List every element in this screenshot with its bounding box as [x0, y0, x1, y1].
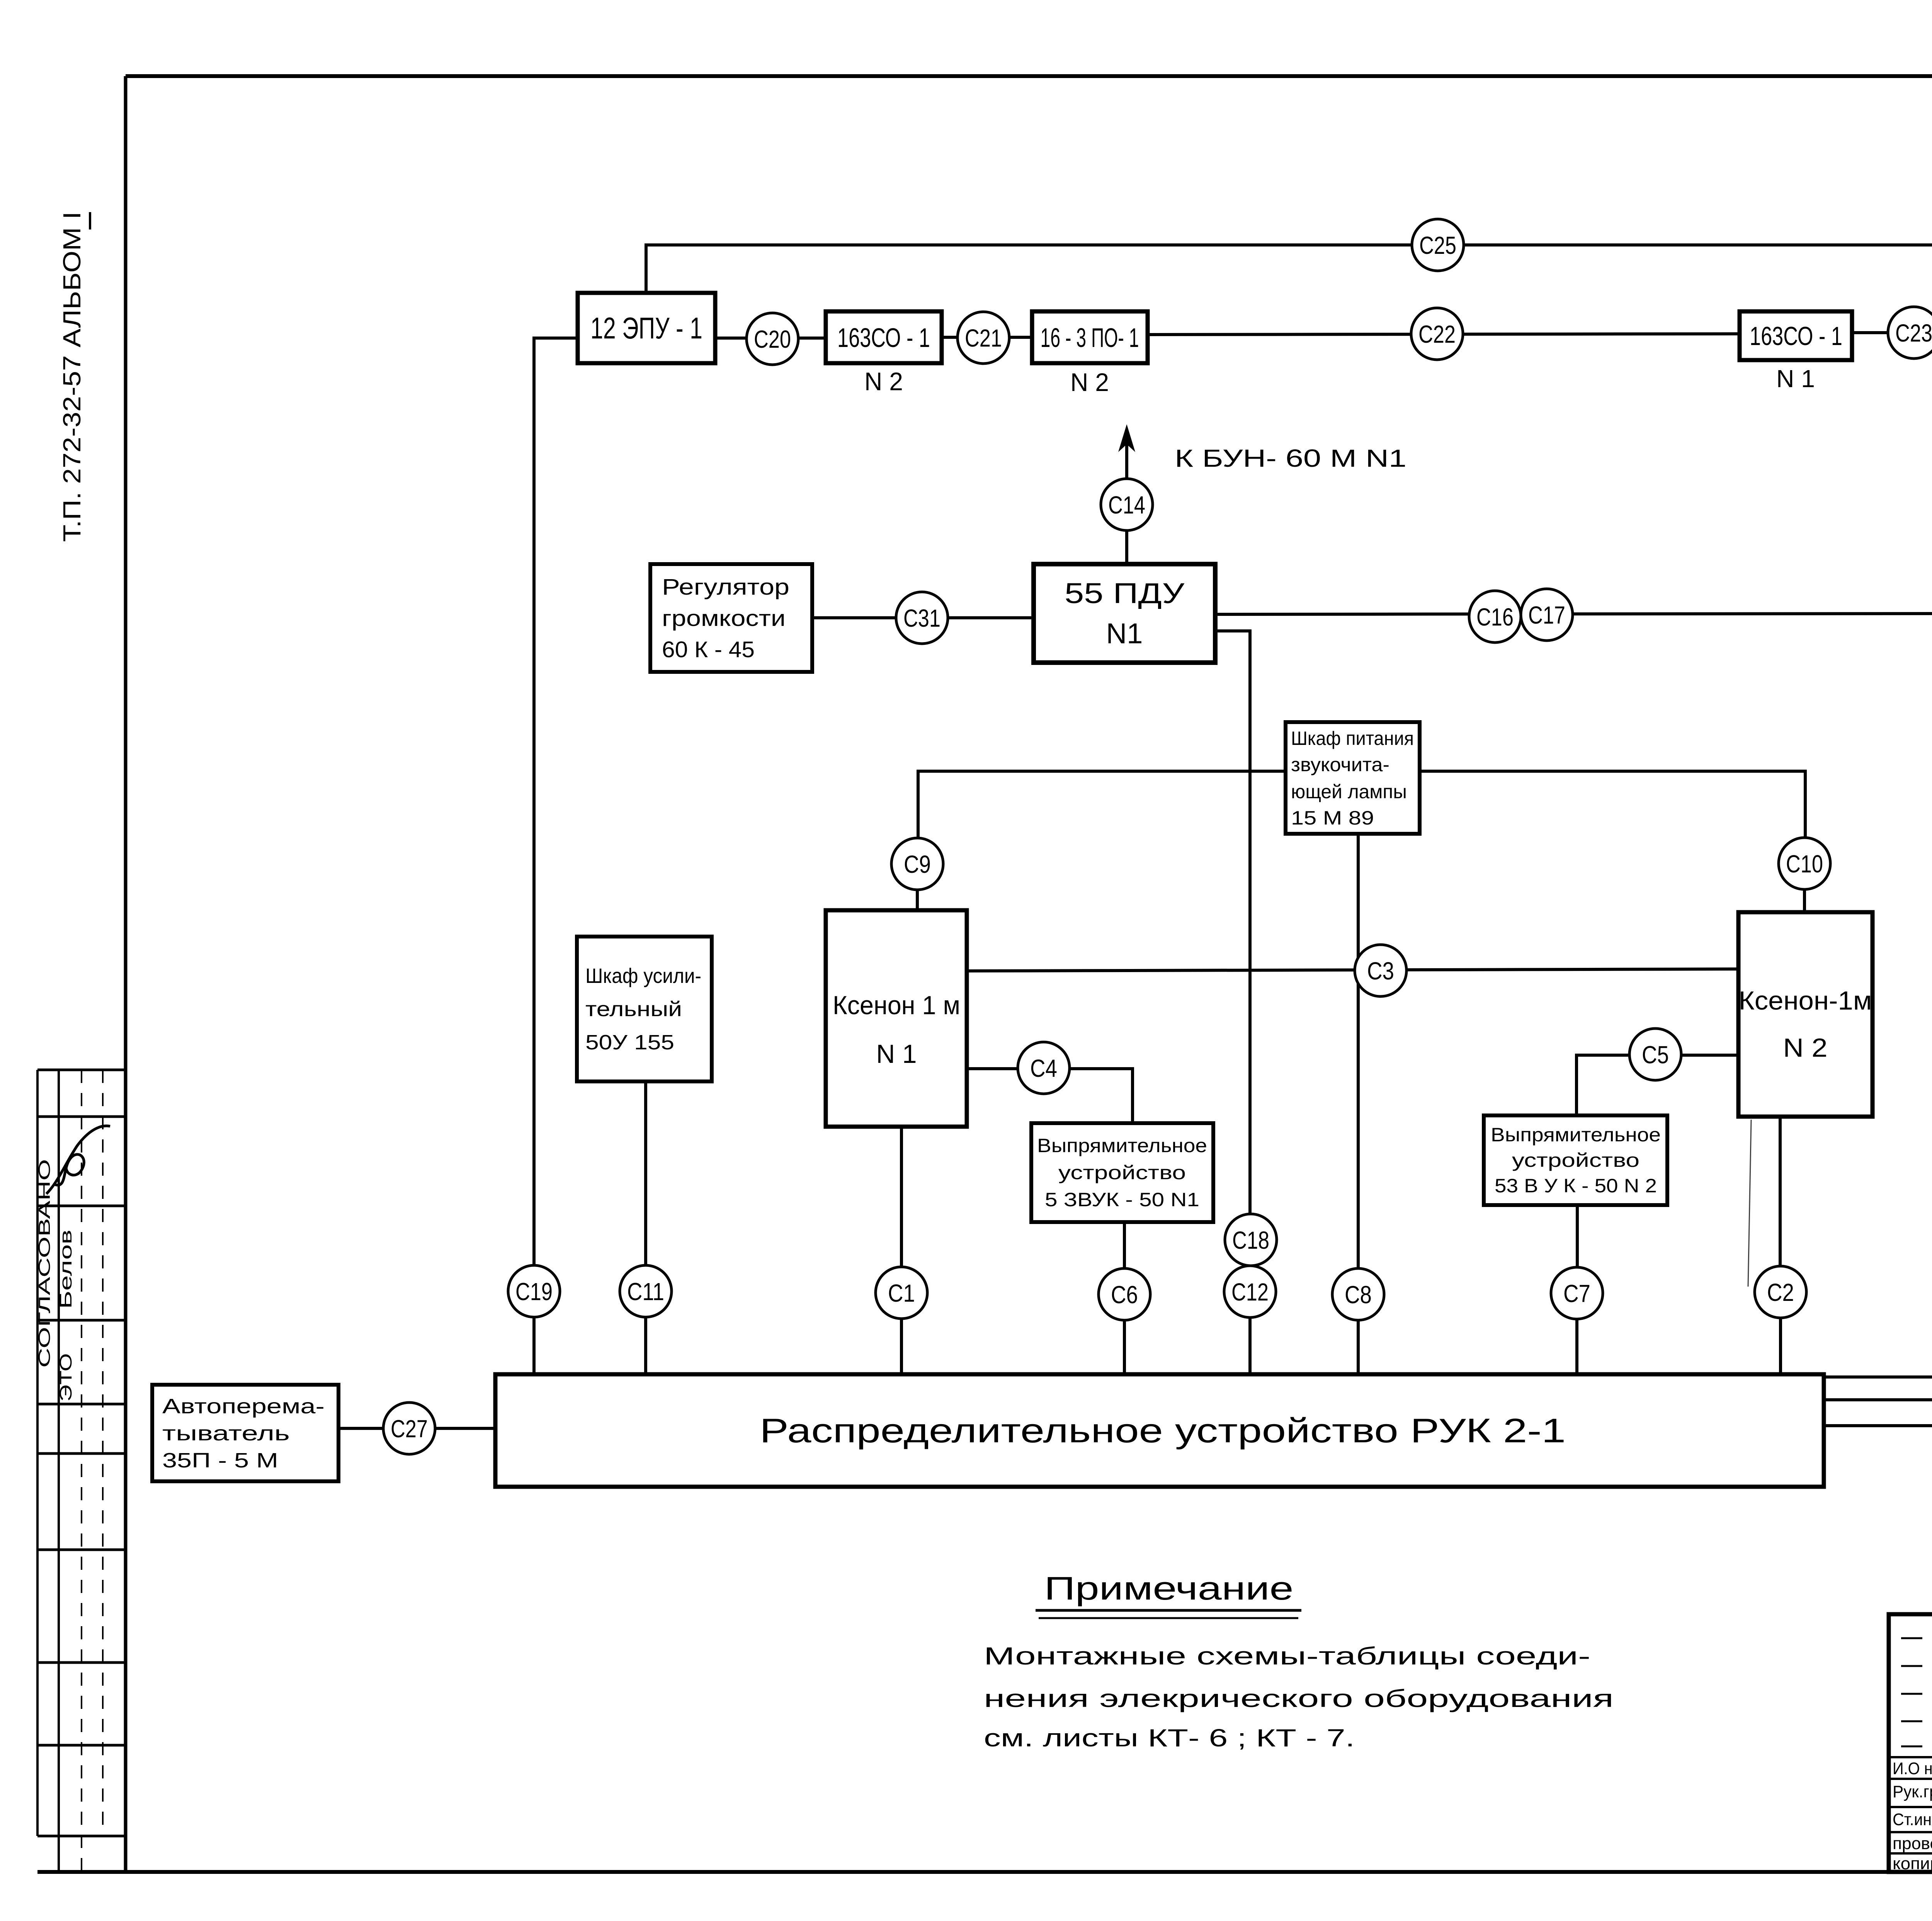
svg-text:С14: С14: [1108, 491, 1145, 519]
connector C9: [891, 838, 943, 890]
connector C20: [747, 313, 798, 365]
svg-text:звукочита-: звукочита-: [1291, 754, 1389, 775]
note heading underline 1: [1036, 1609, 1301, 1612]
svg-text:С1: С1: [888, 1279, 915, 1307]
svg-text:С7: С7: [1563, 1280, 1590, 1307]
connector C12: [1224, 1266, 1276, 1317]
wire 55PDU N1 to C18 C12 column: [1215, 631, 1250, 1214]
svg-text:Регулятор: Регулятор: [662, 575, 789, 600]
wire 12EPU-1 to C19 column: [534, 338, 578, 1266]
wire 12EPU-1 to 163SO-1 N2: [715, 337, 826, 340]
wire C25 loop over top row: [646, 245, 1932, 311]
wire 55PDU N1 to 55PDU N2: [1215, 614, 1932, 614]
approval strip column 1: [36, 1070, 39, 1836]
svg-text:С8: С8: [1345, 1281, 1372, 1309]
wire C1 to RUK: [900, 1319, 903, 1374]
device sound lamp power cabinet 15M89: [1286, 722, 1420, 834]
wire 163SO-1 N2 to 16-3PO-1 N2: [942, 336, 1032, 339]
wire 55PDU N1 to C14 arrow: [1125, 530, 1128, 564]
connector C18: [1225, 1214, 1277, 1266]
device rectifier 53 VUK-50 N2: [1484, 1115, 1667, 1205]
wire C13 to RUK distribution box: [1824, 1318, 1932, 1400]
wire C19 stub to RUK: [532, 1317, 536, 1374]
connector C2: [1755, 1266, 1806, 1318]
title block frame: [1889, 1614, 1932, 1872]
approval strip row line 5: [37, 1403, 126, 1406]
approval strip row line 9: [37, 1744, 126, 1747]
svg-text:С11: С11: [627, 1278, 664, 1306]
svg-text:53 В У К - 50 N 2: 53 В У К - 50 N 2: [1495, 1175, 1657, 1197]
svg-text:Распределительное устройство: Распределительное устройство РУК 2-1: [760, 1411, 1566, 1450]
device Xenon 1m N1: [826, 910, 967, 1127]
sheet border bottom: [37, 1870, 1932, 1874]
svg-text:5 ЗВУК - 50 N1: 5 ЗВУК - 50 N1: [1045, 1189, 1199, 1210]
connector C19: [508, 1265, 560, 1317]
svg-text:громкости: громкости: [662, 606, 786, 631]
svg-text:Монтажные схемы-таблицы соед: Монтажные схемы-таблицы соеди-: [984, 1642, 1590, 1670]
svg-text:см. листы КТ- 6 ; КТ - 7.: см. листы КТ- 6 ; КТ - 7.: [984, 1724, 1355, 1752]
connector C3: [1355, 945, 1406, 996]
wire Xenon N1 to C1: [900, 1127, 903, 1267]
wire power cabinet to C10: [1420, 771, 1805, 838]
svg-text:163СО - 1: 163СО - 1: [1750, 321, 1842, 351]
approval strip row line 1: [37, 1069, 126, 1071]
svg-text:N 2: N 2: [1783, 1033, 1828, 1062]
connector C4: [1018, 1042, 1070, 1094]
svg-text:С20: С20: [754, 325, 791, 353]
svg-text:35П - 5 М: 35П - 5 М: [162, 1449, 278, 1472]
approval strip row line 8: [37, 1661, 126, 1664]
connector C1: [876, 1267, 927, 1319]
approval strip signature squiggle: [46, 1126, 110, 1194]
connector C14: [1101, 479, 1153, 530]
wire C14 up to BUN-60m N1: [1125, 430, 1128, 479]
wire Xenon N2 to rectifier N2: [1577, 1055, 1738, 1115]
wire C28 to RUK distribution box: [1824, 1318, 1932, 1426]
sheet border left: [124, 76, 128, 1872]
svg-text:Ксенон 1 м: Ксенон 1 м: [833, 991, 960, 1020]
svg-text:Белов: Белов: [56, 1230, 75, 1309]
svg-text:Автоперема-: Автоперема-: [162, 1395, 325, 1418]
approval strip column 3 dashed: [81, 1070, 82, 1872]
wire C2 to RUK: [1779, 1318, 1782, 1374]
svg-text:ЭТО: ЭТО: [56, 1353, 75, 1402]
approval strip row line 3: [37, 1205, 126, 1207]
svg-text:копиров.: копиров.: [1893, 1854, 1932, 1873]
svg-text:Ксенон-1м: Ксенон-1м: [1739, 986, 1872, 1015]
wire C11 to RUK: [644, 1317, 647, 1374]
device rectifier 5 ZVUK-50 N1: [1031, 1123, 1213, 1222]
note heading underline 2: [1039, 1617, 1298, 1619]
svg-text:N 2: N 2: [1070, 368, 1109, 396]
svg-text:Шкаф питания: Шкаф питания: [1291, 728, 1414, 749]
wire rectifier N2 to C7: [1576, 1205, 1579, 1267]
wire regulator to C31: [812, 616, 896, 619]
approval strip row line 7: [37, 1549, 126, 1551]
device 55 PDU N1: [1034, 564, 1215, 663]
sheet border top: [126, 74, 1932, 78]
svg-text:N1: N1: [1106, 617, 1143, 649]
svg-text:К БУН- 60 М N1: К БУН- 60 М N1: [1175, 444, 1406, 472]
wire C6 to RUK: [1123, 1320, 1126, 1374]
svg-text:60 К - 45: 60 К - 45: [662, 637, 755, 662]
svg-text:Рук.группы: Рук.группы: [1893, 1782, 1932, 1801]
stray pencil line near Xenon N2: [1748, 1120, 1751, 1287]
svg-text:15 М 89: 15 М 89: [1291, 807, 1374, 829]
approval strip row line 4: [37, 1319, 126, 1322]
svg-text:С17: С17: [1528, 601, 1565, 629]
svg-text:С21: С21: [965, 324, 1002, 352]
connector C8: [1332, 1268, 1384, 1320]
svg-text:С18: С18: [1232, 1226, 1269, 1254]
connector C16: [1469, 591, 1521, 643]
device 16-3PO-1 N2: [1032, 311, 1148, 363]
svg-text:С10: С10: [1786, 850, 1823, 878]
svg-text:нения элекрического оборудов: нения элекрического оборудования: [984, 1685, 1614, 1712]
device film rewinder 35P-5M: [152, 1385, 338, 1481]
svg-text:тельный: тельный: [585, 998, 682, 1021]
svg-text:С5: С5: [1642, 1041, 1669, 1069]
approval strip row line 2: [37, 1115, 126, 1118]
svg-text:С27: С27: [391, 1415, 428, 1443]
wire C9 to Xenon N1: [916, 890, 919, 910]
connector C11: [620, 1265, 672, 1317]
album numeral underline: [89, 212, 91, 229]
connector C25: [1412, 219, 1464, 271]
svg-text:С23: С23: [1895, 319, 1932, 347]
connector C10: [1779, 838, 1830, 889]
svg-text:проверна: проверна: [1893, 1834, 1932, 1853]
wire C27 to RUK: [435, 1427, 495, 1430]
wire power cabinet to C9: [918, 771, 1286, 838]
wire rewinder to C27: [338, 1427, 383, 1430]
approval strip column 2: [58, 1070, 60, 1872]
connector C21: [957, 312, 1009, 364]
svg-text:тыватель: тыватель: [162, 1422, 290, 1445]
svg-text:Выпрямительное: Выпрямительное: [1037, 1135, 1207, 1156]
wire C32 to RUK distribution box: [1824, 1319, 1932, 1377]
device 163SO-1 N2: [826, 311, 942, 363]
svg-text:Т.П. 272-32-57 АЛЬБОМ I: Т.П. 272-32-57 АЛЬБОМ I: [58, 212, 86, 542]
svg-text:С12: С12: [1231, 1278, 1269, 1306]
svg-text:55 ПДУ: 55 ПДУ: [1065, 577, 1185, 609]
svg-text:Шкаф усили-: Шкаф усили-: [585, 964, 701, 988]
connector C31: [896, 592, 948, 644]
svg-text:Примечание: Примечание: [1044, 1570, 1294, 1606]
device amplifier cabinet 50U155: [577, 937, 712, 1081]
connector C27: [383, 1402, 435, 1454]
connector C7: [1551, 1267, 1603, 1319]
svg-text:С4: С4: [1030, 1054, 1057, 1082]
svg-text:12 ЭПУ - 1: 12 ЭПУ - 1: [590, 311, 702, 345]
approval strip column 4 dashed: [102, 1070, 104, 1836]
svg-text:ющей лампы: ющей лампы: [1291, 781, 1407, 802]
wire rectifier N1 to C6: [1123, 1222, 1126, 1268]
svg-text:С3: С3: [1367, 957, 1394, 985]
device Xenon 1m N2: [1738, 912, 1872, 1117]
svg-text:N 1: N 1: [876, 1039, 917, 1069]
approval strip row line 10: [37, 1835, 126, 1838]
svg-text:С22: С22: [1418, 320, 1456, 348]
svg-text:N 1: N 1: [1776, 365, 1815, 393]
distribution device RUK 2-1: [495, 1374, 1824, 1487]
svg-text:С2: С2: [1767, 1278, 1794, 1306]
svg-text:50У 155: 50У 155: [585, 1031, 674, 1054]
svg-text:С25: С25: [1419, 231, 1456, 259]
wire 163SO-1 N1 to 163PO-1 N1: [1852, 331, 1932, 334]
arrowhead to BUN-60m N1: [1118, 424, 1135, 452]
wire Xenon N1 to Xenon N2 via C3: [967, 969, 1738, 971]
wire C7 to RUK: [1575, 1319, 1578, 1374]
svg-text:N 2: N 2: [864, 367, 903, 396]
device 163SO-1 N1: [1740, 311, 1852, 360]
svg-text:Ст.инженер: Ст.инженер: [1893, 1810, 1932, 1829]
connector C23: [1888, 307, 1932, 359]
svg-text:Выпрямительное: Выпрямительное: [1491, 1124, 1661, 1146]
wire amplifier cabinet to C11: [644, 1081, 647, 1266]
svg-text:С16: С16: [1476, 603, 1514, 631]
wire C12 to RUK: [1248, 1317, 1252, 1374]
wire power cabinet to C8: [1357, 834, 1360, 1268]
connector C5: [1629, 1028, 1681, 1080]
svg-text:устройство: устройство: [1512, 1149, 1639, 1171]
svg-text:С6: С6: [1111, 1281, 1138, 1309]
title block signee row lines: [1889, 1757, 1932, 1853]
wire Xenon N1 to rectifier N1: [967, 1069, 1133, 1123]
wire C8 to RUK: [1357, 1320, 1360, 1374]
svg-text:С9: С9: [904, 850, 931, 878]
svg-text:16 - 3 ПО- 1: 16 - 3 ПО- 1: [1041, 323, 1139, 353]
connector C22: [1411, 308, 1463, 360]
connector C6: [1099, 1268, 1150, 1320]
wire C10 to Xenon N2: [1803, 889, 1806, 912]
device 12EPU-1: [578, 293, 715, 363]
svg-text:устройство: устройство: [1058, 1162, 1186, 1183]
svg-text:С19: С19: [515, 1278, 553, 1306]
svg-text:С31: С31: [903, 604, 940, 632]
svg-text:И.О нач.отд: И.О нач.отд: [1893, 1759, 1932, 1778]
wire Xenon N2 to C2: [1779, 1117, 1782, 1266]
approval strip row line 6: [37, 1452, 126, 1455]
connector C17: [1521, 589, 1573, 641]
device volume regulator 60K-45: [650, 564, 812, 672]
wire C31 to 55PDU N1: [948, 616, 1034, 619]
title block empty row dashes: [1901, 1638, 1932, 1746]
svg-text:163СО - 1: 163СО - 1: [837, 323, 930, 353]
wire 16-3PO-1 to 163SO-1 N1: [1148, 334, 1740, 335]
